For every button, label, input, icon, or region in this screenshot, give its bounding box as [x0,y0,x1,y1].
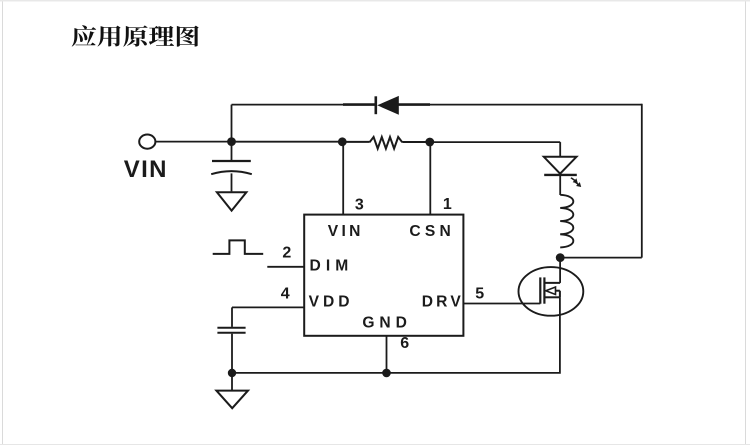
ground VDD cap stem [231,373,233,391]
wire input node up to diode rail [231,105,233,142]
wire diode rail right segment [430,104,642,106]
wire pin5 DRV gate [463,303,540,305]
wire LED branch elbow down [559,142,561,156]
svg-text:6: 6 [400,335,409,352]
capacitor C1 bottom lead [231,173,233,191]
terminal VIN input [139,135,155,149]
wire LED to inductor [559,176,561,195]
svg-text:5: 5 [475,286,484,303]
wire bottom rail left segment [232,372,387,374]
node input junction [227,137,236,146]
node resistor right pin1 junction [425,138,434,147]
LED light arrows [570,177,581,187]
resistor R1 [342,137,430,149]
capacitor C2 top lead [231,307,233,327]
svg-text:DRV: DRV [422,294,464,311]
node inductor drain junction [556,253,565,262]
ground input [217,192,247,210]
svg-text:2: 2 [282,245,291,262]
LED anode triangle [544,157,577,174]
capacitor C1 curved plate [211,171,252,174]
MOSFET Q1 [519,267,584,316]
svg-text:1: 1 [443,196,452,213]
wire pin3 [342,142,344,215]
svg-text:DIM: DIM [310,258,354,275]
capacitor C2 bottom lead [231,334,233,373]
svg-text:VIN: VIN [328,223,364,240]
wire pin1 [429,142,431,215]
capacitor C2 plates [217,327,245,329]
wire pin2 DIM [267,266,304,268]
wire MOSFET source down and bottom rail right [387,297,560,373]
svg-text:VDD: VDD [309,293,354,310]
svg-text:VIN: VIN [124,156,168,183]
wire pin4 VDD [232,306,304,308]
title 应用原理图 [72,25,199,46]
wire right rail down [641,104,643,258]
ground VDD cap [216,391,248,409]
node resistor left pin3 junction [338,137,347,146]
svg-text:CSN: CSN [409,223,455,240]
wire pin6 GND [386,336,388,373]
wire right rail to inductor node [560,257,642,259]
svg-text:4: 4 [281,285,290,302]
LED cathode bar [544,174,577,176]
wire diode rail left segment [232,104,344,106]
diode D1 freewheel pointing left [343,96,430,115]
node ground left junction [228,369,236,377]
wire resistor node to LED branch [430,141,560,143]
wire input node to resistor node [232,141,343,143]
svg-text:3: 3 [355,197,364,214]
pulse PWM symbol [213,240,264,254]
node ground rail pin6 junction [382,369,391,378]
IC U1 [304,215,463,336]
capacitor C1 top plate [212,160,251,162]
wire terminal to input node [156,141,232,143]
capacitor C1 input lead [231,142,233,160]
wire node to MOSFET drain [559,258,561,283]
inductor coil [560,195,573,248]
svg-text:GND: GND [362,314,411,331]
